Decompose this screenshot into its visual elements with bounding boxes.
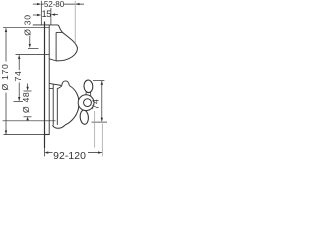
handle bell flank to apex [65,86,79,126]
knob neck underside [49,59,56,61]
dim 52-80 right arrow [76,3,80,5]
plate bottom edge [44,134,50,136]
dim 74 left bottom ext tick [14,100,24,102]
lower sleeve tick [49,88,53,90]
dim 52-80 dimension line [41,3,84,5]
dim 15 left arrow [37,14,41,16]
dim 52-80 left arrow [37,3,41,5]
dia 170 top ext line + plate top edge [3,27,49,29]
svg-text:74: 74 [13,71,23,82]
svg-text:Ø 48: Ø 48 [21,92,31,113]
cross handle hub outer [78,95,94,111]
dim 92-120 right ext line [101,124,103,157]
wall line [44,22,46,149]
cross handle bottom lobe [80,110,89,125]
knob top edge + dia30 top ext line [33,24,58,26]
dia 170 top arrow [5,28,7,32]
dim 74 left bottom arrow [18,97,20,101]
dia 170 bottom ext line [4,134,45,136]
svg-text:Ø 170: Ø 170 [0,64,10,91]
knob top tier shelf [56,31,63,33]
ext line A (reference plane, top) [40,1,42,25]
svg-text:15: 15 [42,9,52,19]
dim 74 left top arrow [18,55,20,59]
dia 30 bottom ext line [28,47,39,49]
svg-text:Ø 30: Ø 30 [22,14,32,35]
hub front ext line (gray) [94,111,96,148]
wall ext to 92-120 dim [43,148,45,156]
cross handle top lobe [84,80,94,93]
dia 30 dim line + down arrow [29,36,31,44]
handle ear bump [62,81,70,86]
dia 170 bottom arrow [5,130,7,134]
dim 92-120 right arrow [98,151,102,153]
svg-text:52-80: 52-80 [44,0,65,9]
dim 74 right top ext line [93,79,104,81]
dim 92-120 dimension line [48,152,102,154]
handle bell dome [57,86,62,89]
dia 170 dimension line [5,28,7,134]
knob dome [56,25,77,61]
dim 74 right top arrow [101,81,103,85]
dim 74 right bottom ext line [92,121,108,123]
dim 92-120 left arrow [44,151,48,153]
lower sleeve front line [52,85,54,126]
svg-text:74: 74 [91,99,101,110]
dia 48 bottom arrow (outside) [26,117,28,121]
cross handle top lobe stem [86,91,91,96]
dim 74 left dimension line [18,55,20,100]
lower sleeve top edge [49,83,62,85]
svg-text:92-120: 92-120 [53,151,86,160]
dim 15 right arrow [51,13,55,15]
dia 48 bottom ext tick [24,116,32,118]
dim 74 left top ext line [16,54,50,56]
cross handle hub inner [84,99,92,107]
knob base line [55,32,57,61]
plate front line [48,25,50,135]
dim 74 right bottom arrow [101,118,103,122]
dim 74 right dimension line [101,81,103,121]
dia 48 top arrow (outside) [26,87,28,91]
ext line 52-80 right (gray, to dome apex) [74,1,76,44]
handle skirt bottom dip [53,125,66,128]
long ext line at bell bottom [3,120,56,122]
dia 48 top ext tick [24,90,32,92]
handle bell base line [56,88,58,125]
ext line C (plate front plane, top) [50,8,52,25]
